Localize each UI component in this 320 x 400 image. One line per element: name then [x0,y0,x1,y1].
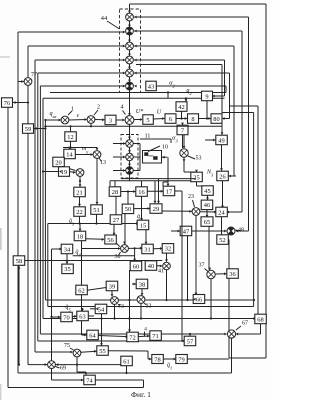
block 27 [110,215,122,225]
svg-text:78: 78 [154,356,160,363]
svg-text:69: 69 [60,366,66,372]
svg-text:67: 67 [242,321,248,327]
wire left loop x=40.4 [39,86,41,334]
wire 37 down [210,279,212,319]
svg-text:5: 5 [146,117,149,124]
svg-text:α3: α3 [172,135,178,144]
block 20 [53,157,65,167]
wire 8-80 [199,118,211,120]
multiplier M5 [126,69,134,77]
multiplier M1 [126,13,134,21]
svg-text:qвх: qвх [50,110,57,119]
multiplier MM1 [126,140,133,147]
block 78 [152,355,164,364]
svg-text:q̄: q̄ [137,214,140,220]
block 50 [122,204,134,214]
wire 18-56 [86,238,104,241]
wire left loop x=47.8 mid [47,224,49,307]
wire 47-48 row [191,230,227,232]
block 35 [62,264,74,274]
block 39 [106,281,118,291]
multiplier M3 [126,42,134,50]
wire x=51.5 column [51,249,53,380]
svg-text:35: 35 [64,266,70,273]
multiplier 37 [207,270,215,278]
block 43 [146,81,157,91]
block 14 [64,149,76,159]
block 16 [136,187,148,197]
wire 30-31 [129,247,143,249]
multiplier 69 [48,361,56,369]
svg-text:74: 74 [86,377,93,384]
multiplier 19-20 junction [76,169,84,177]
wire right loop x=224.5 [134,59,225,61]
svg-text:36: 36 [229,271,235,278]
wire 6-8 [176,118,187,120]
block 49 [216,135,228,145]
block 59 [23,124,34,134]
block 36 [227,269,239,279]
svg-text:26: 26 [219,173,225,180]
multiplier 30 [121,245,129,253]
svg-text:21: 21 [76,189,82,196]
svg-text:16: 16 [138,189,144,196]
block 47 [180,226,192,236]
svg-text:59: 59 [25,126,31,133]
wire top feedback y=4 x=266 [130,3,267,5]
svg-text:44: 44 [101,15,108,22]
block 24 [216,207,228,217]
svg-text:37: 37 [199,263,205,269]
block 28 [109,187,121,197]
multiplier MM3 [126,167,133,174]
svg-text:65: 65 [204,219,210,226]
block 76 [2,98,13,108]
wire right loop x=248.5 [134,16,249,18]
svg-text:19: 19 [61,169,67,176]
svg-text:72: 72 [129,334,135,341]
wire long y=92.5 [50,92,226,94]
wire 37-36 [215,273,226,275]
svg-text:51: 51 [93,207,99,214]
multiplier 41 [163,262,171,270]
multiplier 4 [125,116,134,125]
multiplier 53 [180,149,188,157]
block 21 [74,187,86,197]
svg-text:18: 18 [77,233,83,240]
block 42 [176,102,187,112]
svg-text:N3: N3 [206,169,214,178]
multiplier 75 [73,349,81,357]
svg-text:61: 61 [123,358,129,365]
svg-text:39: 39 [109,283,115,290]
svg-text:24: 24 [218,209,225,216]
wire 2-3 [95,119,104,121]
svg-text:48: 48 [238,228,244,234]
block 5 [143,115,154,125]
svg-text:17: 17 [166,188,173,195]
wire 53 down [183,157,185,172]
block 8 [188,114,199,124]
block 12 [65,132,77,142]
svg-text:41: 41 [158,269,164,275]
svg-text:47: 47 [183,228,190,235]
svg-text:49: 49 [218,137,224,144]
block 46 [201,200,213,210]
wire 5-6 [153,118,164,121]
svg-text:40: 40 [148,263,154,270]
block 25 [191,172,203,182]
wire left loop x=45.4 mid [44,120,46,300]
wire m line [63,147,97,149]
scan smudge left [0,228,2,250]
block 80 [211,114,222,124]
svg-text:45: 45 [204,188,210,195]
wire right loop x=242 [134,30,242,32]
wire into 49 x=222 [221,65,223,135]
multiplier MM2 [126,153,133,160]
svg-text:ε: ε [77,112,80,119]
svg-text:q̄3: q̄3 [69,218,75,227]
summer 2 [87,116,95,124]
block 3 [105,115,116,125]
svg-text:29: 29 [153,206,159,213]
wire 23 down [195,215,197,295]
svg-text:q2: q2 [186,87,192,96]
dashed box mid [121,135,138,179]
svg-text:3: 3 [109,117,112,124]
wire input [45,119,60,121]
block 9 [202,91,213,101]
wire 13 down to 51 [96,148,98,151]
block 31 [142,244,154,254]
block 34 [61,244,72,254]
wire loop into block 43 [156,85,226,87]
svg-text:52: 52 [219,237,225,244]
wire 3-4 [116,119,125,121]
block 56 [105,235,117,244]
block 32 [162,244,174,254]
wire junction down to 21 [79,176,81,186]
block 79 [176,355,188,364]
wire left loop x=28 [27,46,29,365]
wire right loop x=236 [134,45,234,47]
wire left loop x=18 [17,32,19,373]
multiplier 67 [227,330,235,338]
svg-text:Фиг. 1: Фиг. 1 [131,390,151,399]
multiplier 33 [137,296,145,304]
svg-text:71: 71 [152,333,158,340]
svg-text:43: 43 [148,83,154,90]
multiplier M4 [126,56,134,64]
wire stub MM right [133,143,140,145]
block 26 [217,171,229,181]
svg-text:27: 27 [113,217,120,224]
svg-text:14: 14 [66,151,73,158]
wire long y=98.3 tail [167,93,169,99]
svg-text:70: 70 [63,314,69,321]
wire left loop x=35 [34,60,36,352]
block 60 [130,261,142,271]
wire long y=126.3 [45,125,222,127]
wire band upper [121,178,196,180]
block 18 [74,231,86,241]
svg-text:64: 64 [89,332,96,339]
wire left loop x=43 [42,98,44,318]
svg-text:α2: α2 [169,80,175,89]
block 72 [127,332,139,342]
block 74 [84,375,96,385]
wire 53 right to 25 [184,171,197,173]
svg-text:32: 32 [165,246,171,253]
svg-text:mγ: mγ [82,145,88,154]
svg-text:57: 57 [187,338,194,345]
block 63 [77,311,89,321]
svg-text:53: 53 [196,156,202,162]
wire 11 [140,138,171,140]
block 71 [150,331,162,341]
wire 14-13 [75,154,92,156]
block 45 [202,186,214,196]
svg-text:4: 4 [121,105,124,111]
wire left loop x=37.8 [37,73,39,341]
block 10 [143,151,162,164]
block 6 [165,114,176,124]
summer 77 [24,78,32,86]
svg-text:U*: U* [136,108,144,115]
wire 7 to 53 [182,135,184,148]
svg-text:28: 28 [112,189,118,196]
multiplier 23 [192,208,200,216]
wire 4-5 [134,119,142,121]
wire y=364.6 [28,364,121,366]
block 38 [136,279,148,289]
block 29 [150,204,162,214]
block 22 [74,207,86,217]
block 70 [61,312,73,322]
svg-text:6: 6 [169,116,172,123]
wire 29 to 23 [162,210,192,212]
multiplier 48 [227,227,235,235]
block 52 [217,235,229,245]
svg-text:55: 55 [99,348,105,355]
wire right loop x=258 [230,105,258,107]
svg-text:23: 23 [188,194,194,200]
summer 1 [61,116,69,124]
svg-text:79: 79 [178,356,184,363]
svg-text:20: 20 [55,159,61,166]
svg-text:54: 54 [98,306,105,313]
block 7 [177,125,188,135]
block 17 [163,186,175,196]
svg-text:62: 62 [78,287,84,294]
wire into 10 right [162,156,168,158]
svg-text:46: 46 [204,202,210,209]
svg-text:60: 60 [133,263,139,270]
wire 41 down [166,270,168,300]
wire chain mid vertical [129,124,131,181]
svg-text:q̄1: q̄1 [167,362,172,371]
svg-text:77: 77 [31,72,37,78]
block 54 [95,304,107,314]
svg-text:15: 15 [140,222,146,229]
svg-text:30: 30 [115,254,121,260]
svg-text:q̄5: q̄5 [65,304,71,313]
svg-text:31: 31 [144,246,150,253]
svg-text:68: 68 [257,316,263,323]
svg-text:66: 66 [196,296,202,303]
wire right loop x=229.5 [134,72,230,74]
svg-text:58: 58 [16,258,22,265]
wire 75-55 [81,350,96,353]
svg-text:50: 50 [125,206,131,213]
wire chain vertical [129,4,131,116]
wire 67 down [231,338,233,373]
svg-text:42: 42 [178,104,184,111]
block 40 [145,261,157,271]
wire right loop x=253.6 [222,112,254,114]
wire 65 to 37 [208,226,210,269]
wire 23-24 [200,211,216,213]
multiplier 13 [93,151,101,159]
svg-text:25: 25 [193,174,199,181]
block 57 [184,336,196,346]
svg-text:63: 63 [79,313,85,320]
svg-text:U: U [157,109,162,116]
svg-text:12: 12 [67,134,73,141]
svg-text:2: 2 [97,105,100,111]
svg-text:34: 34 [64,246,71,253]
wire left loop x=8 from block 76 to bottom [7,108,9,388]
svg-text:75: 75 [64,343,70,349]
block 51 [91,205,103,215]
wire mid vertical to 72 [129,270,131,332]
block 61 [121,356,133,366]
block 58 [13,256,25,265]
block 65 [201,217,213,227]
dashed box 44 [120,9,141,93]
svg-text:56: 56 [107,237,113,244]
svg-text:10: 10 [162,145,168,151]
svg-text:38: 38 [139,281,145,288]
wire 58 up arrow [18,266,20,365]
multiplier M2 [126,27,134,35]
svg-text:80: 80 [213,116,219,123]
block 62 [76,285,88,295]
wire 42 up [185,98,187,101]
block 55 [97,346,109,356]
multiplier 73 [111,297,119,305]
block 15 [137,220,149,230]
svg-text:8: 8 [191,116,194,123]
svg-text:9: 9 [205,93,208,100]
wire 1-2 [69,119,87,122]
multiplier M6 [126,82,134,90]
block 66 [193,295,205,304]
svg-text:76: 76 [4,100,10,107]
block 19 [59,167,70,177]
block 64 [87,330,99,340]
block 68 [255,314,266,324]
svg-text:22: 22 [76,209,82,216]
